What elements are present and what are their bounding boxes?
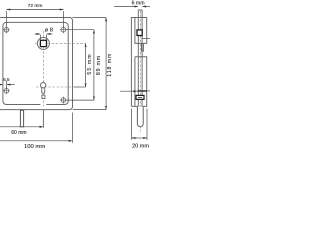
svg-text:89 mm: 89 mm — [96, 55, 102, 75]
svg-text:100 mm: 100 mm — [24, 144, 45, 150]
svg-text:60 mm: 60 mm — [11, 130, 26, 136]
svg-text:ø 8: ø 8 — [45, 27, 53, 33]
svg-text:6 mm: 6 mm — [132, 1, 145, 7]
svg-text:20 mm: 20 mm — [132, 144, 149, 150]
svg-text:55 mm: 55 mm — [87, 53, 93, 74]
svg-text:118 mm: 118 mm — [107, 53, 113, 77]
svg-text:72 mm: 72 mm — [28, 3, 43, 9]
svg-text:5,5: 5,5 — [3, 77, 10, 82]
